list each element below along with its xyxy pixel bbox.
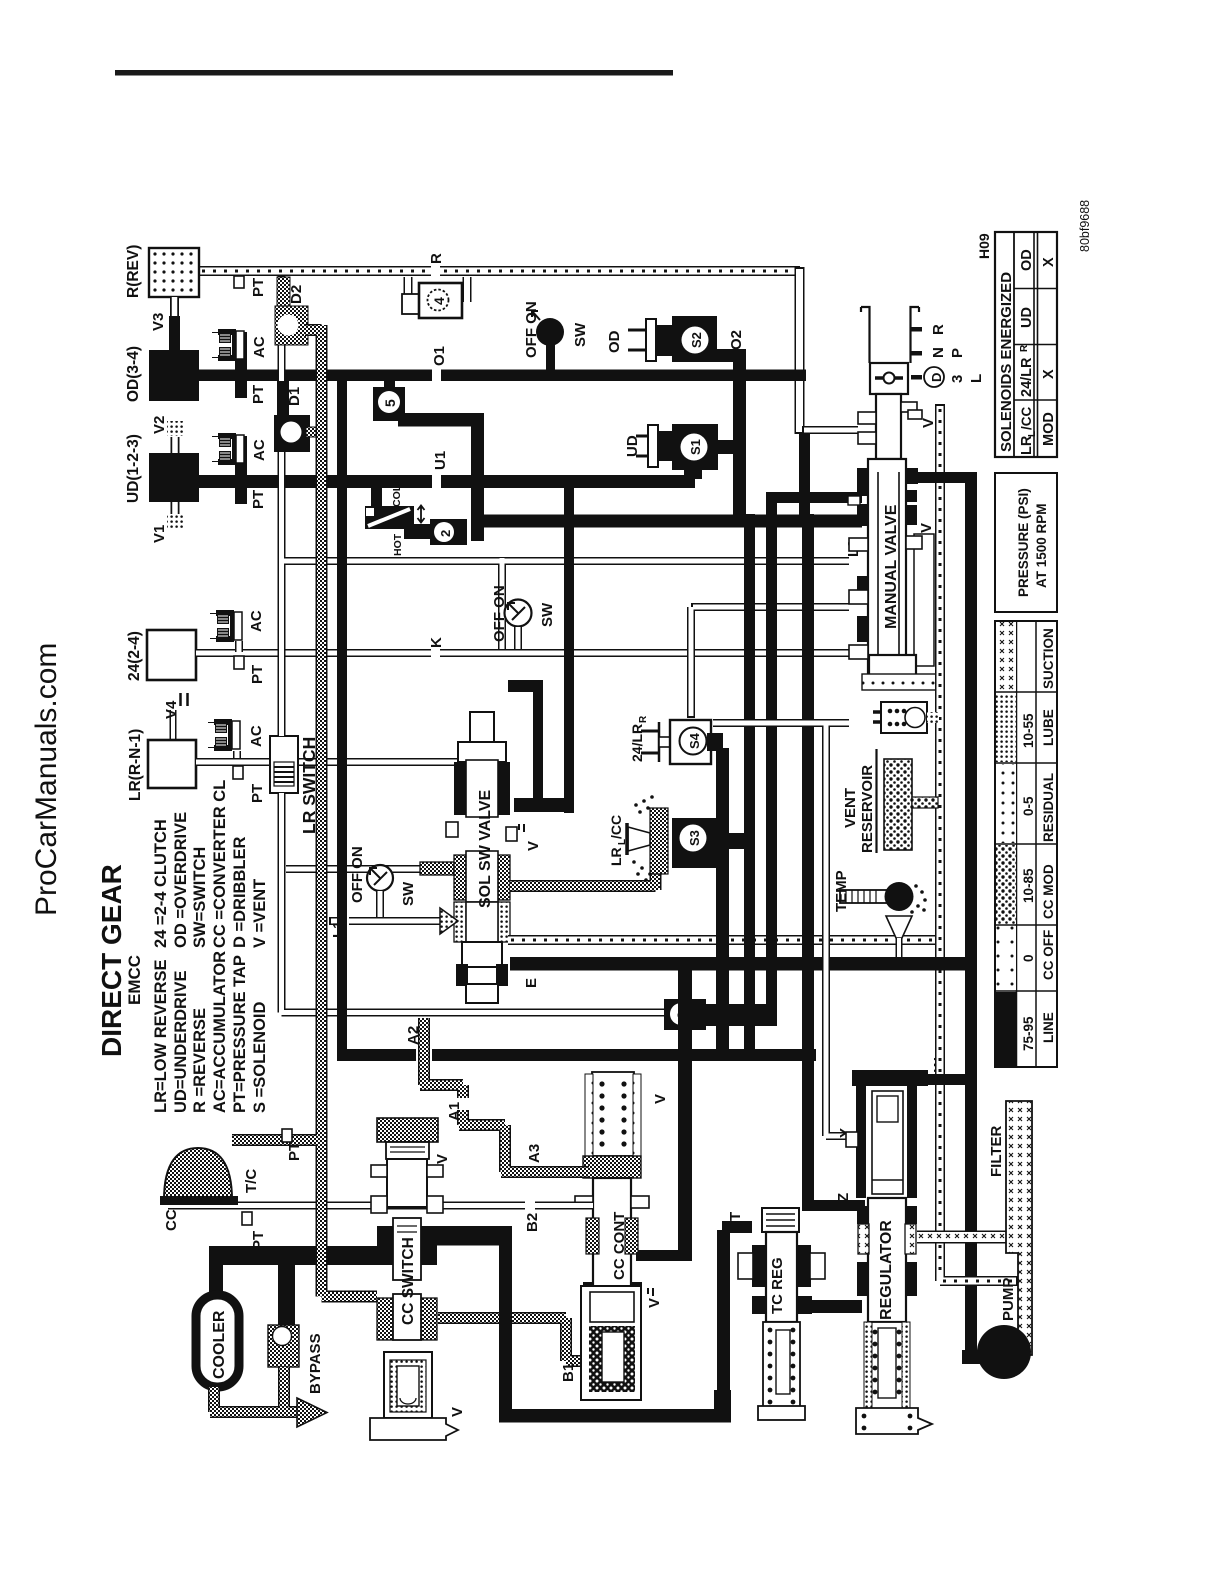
legend abbreviations column 1 <box>152 780 269 948</box>
svg-text:PT: PT <box>249 784 266 803</box>
svg-text:O1: O1 <box>431 346 448 366</box>
svg-text:UD: UD <box>624 435 641 457</box>
wire: vertical UD-to-SOLSW feed <box>508 488 574 813</box>
svg-text:AC: AC <box>251 336 268 358</box>
svg-text:OD(3-4): OD(3-4) <box>125 346 142 402</box>
svg-text:PUMP: PUMP <box>1000 1278 1017 1321</box>
svg-text:R: R <box>930 324 947 335</box>
wire: 2 line to manual valve <box>476 515 862 528</box>
wire: channel from R/3 channel to K line (via 4-ball branch) <box>284 558 849 649</box>
wire: OD clutch line O1 <box>199 370 806 382</box>
switch SW (on K line) <box>491 585 556 649</box>
wire: S4 top channel to manual valve <box>691 607 849 718</box>
wire: T/C out channel to CC CONT (B2) <box>163 1199 593 1250</box>
torque converter T/C dome <box>160 1148 260 1205</box>
svg-text:D1: D1 <box>286 387 303 406</box>
clutch R(REV) dotted box <box>149 248 199 297</box>
vent V1 <box>151 502 183 543</box>
svg-text:S3: S3 <box>687 830 702 846</box>
svg-text:A3: A3 <box>526 1144 543 1163</box>
clutch 24(2-4) box <box>147 630 196 680</box>
node R gap label <box>431 263 440 279</box>
clutch OD(3-4) box <box>149 350 199 401</box>
svg-text:R: R <box>638 715 649 723</box>
wire: channel LR switch to SOL SW valve left port <box>286 862 454 875</box>
svg-text:AC=ACCUMULATOR: AC=ACCUMULATOR <box>211 951 229 1113</box>
svg-text:2: 2 <box>438 530 453 537</box>
svg-text:24 =2-4 CLUTCH: 24 =2-4 CLUTCH <box>152 819 170 948</box>
pressure tap PT on R line <box>234 276 244 288</box>
pressure tap PT on LR line <box>233 766 243 779</box>
solenoid S3 (LRL/CC) with muffler <box>608 795 747 882</box>
svg-text:CC: CC <box>163 1209 180 1231</box>
svg-text:D =DRIBBLER: D =DRIBBLER <box>231 837 249 948</box>
cc mod row <box>996 845 1016 924</box>
suction row swatch <box>996 622 1016 691</box>
residual row <box>996 764 1016 843</box>
svg-text:OFF ON: OFF ON <box>523 301 540 358</box>
wire: long vertical line pressure branch (x342) <box>337 375 347 1055</box>
svg-text:SW: SW <box>400 881 417 906</box>
svg-text:LR: LR <box>608 847 624 866</box>
dribbler D1 <box>274 381 322 452</box>
svg-text:R =REVERSE: R =REVERSE <box>191 1008 209 1113</box>
wire: checker line SOL SW valve to LRL/CC muffler <box>510 812 656 890</box>
check ball 3 <box>664 999 777 1030</box>
solenoid S4 (24/LRR) <box>629 715 723 764</box>
top rule <box>115 70 673 76</box>
svg-text:P: P <box>949 348 966 358</box>
wire: main line pump to manual valve <box>913 472 977 1352</box>
wire: L1 channel to SOL SW valve funnel <box>329 914 444 938</box>
svg-text:SW: SW <box>539 602 556 627</box>
wire: LR clutch channel to LR switch and SOL SW valve <box>196 758 462 766</box>
pressure tap PT on 24 line <box>234 656 244 669</box>
table PRESSURE (PSI) AT 1500 RPM <box>995 473 1057 612</box>
svg-text:0-5: 0-5 <box>1021 796 1036 816</box>
accumulator AC (OD) <box>235 332 247 381</box>
wire: Y channel (manual valve to regulator) <box>713 723 854 1138</box>
switch SW (on L1 line) <box>349 846 417 917</box>
wire: UD clutch line U1 <box>199 475 695 488</box>
svg-text:VENT: VENT <box>842 788 859 828</box>
clutch LR(R-N-1) box <box>148 740 196 788</box>
svg-text:UD=UNDERDRIVE: UD=UNDERDRIVE <box>172 970 190 1113</box>
svg-text:OFF ON: OFF ON <box>349 846 366 903</box>
svg-text:OD =OVERDRIVE: OD =OVERDRIVE <box>172 812 190 948</box>
switch SW (on OD line) <box>523 301 589 371</box>
lube row <box>996 693 1016 762</box>
svg-text:0: 0 <box>1021 954 1036 962</box>
relief ball above vent reservoir <box>873 702 939 733</box>
svg-text:H09: H09 <box>976 233 992 259</box>
svg-text:SW=SWITCH: SW=SWITCH <box>191 847 209 948</box>
svg-text:24/LR: 24/LR <box>1019 357 1035 397</box>
check ball 5 <box>373 378 484 541</box>
svg-text:/CC: /CC <box>1019 407 1034 431</box>
wire: A2 line <box>337 1026 816 1064</box>
dribbler D2 <box>275 277 308 345</box>
svg-text:AC: AC <box>251 439 268 461</box>
svg-text:COOLER: COOLER <box>211 1310 228 1379</box>
svg-text:L: L <box>968 374 985 383</box>
svg-text:10-85: 10-85 <box>1021 868 1036 903</box>
svg-text:U1: U1 <box>432 451 449 470</box>
svg-text:SW: SW <box>572 322 589 347</box>
svg-text:V: V <box>918 523 935 533</box>
svg-text:RESERVOIR: RESERVOIR <box>859 765 876 853</box>
svg-text:HOT: HOT <box>392 533 404 556</box>
svg-text:S2: S2 <box>689 332 704 348</box>
svg-text:A1: A1 <box>446 1102 463 1121</box>
svg-text:RESIDUAL: RESIDUAL <box>1041 773 1056 842</box>
wire: manual valve feeds H1/H2 <box>799 434 810 527</box>
wire: E line <box>510 957 967 971</box>
svg-text:SOL SW VALVE: SOL SW VALVE <box>477 789 494 908</box>
svg-text:75-95: 75-95 <box>1021 1016 1036 1051</box>
LR SWITCH <box>270 736 319 834</box>
svg-text:OD: OD <box>606 330 623 353</box>
wire: checker from CC SWITCH to B1 dashpot <box>438 1318 582 1361</box>
svg-text:V: V <box>920 418 937 428</box>
table pressure legend <box>995 621 1057 1067</box>
valve CC CONT <box>560 1072 669 1400</box>
accumulator AC (LR) <box>233 751 241 762</box>
svg-text:B2: B2 <box>524 1213 541 1232</box>
wire: 3-ball vertical V2 <box>766 493 777 1026</box>
svg-text:Z: Z <box>835 1193 852 1202</box>
cc off row <box>996 926 1016 990</box>
svg-text:CC =CONVERTER CL: CC =CONVERTER CL <box>211 780 229 948</box>
valve TC REG <box>717 1208 862 1420</box>
solenoid S2 (OD) <box>606 316 717 362</box>
regulator top frame <box>846 1070 928 1198</box>
svg-text:V: V <box>652 1094 669 1104</box>
svg-text:LINE: LINE <box>1041 1012 1056 1043</box>
svg-text:O2: O2 <box>728 330 745 350</box>
svg-text:10-55: 10-55 <box>1021 713 1036 748</box>
svg-text:DIRECT GEAR: DIRECT GEAR <box>96 864 127 1057</box>
svg-text:LUBE: LUBE <box>1041 709 1056 746</box>
svg-text:L: L <box>1027 431 1038 437</box>
svg-text:PT: PT <box>249 665 266 684</box>
pressure tap PT on T/C checker line <box>282 1129 292 1142</box>
svg-text:LR: LR <box>1019 435 1035 455</box>
svg-text:AT 1500 RPM: AT 1500 RPM <box>1034 503 1049 588</box>
wire: mid dotted suction channel <box>508 935 941 945</box>
PUMP <box>962 1278 1031 1379</box>
svg-text:N: N <box>930 347 947 358</box>
wire: E-line branch down to TC REG <box>636 970 692 1261</box>
pressure tap PT on OD line <box>235 381 247 398</box>
svg-text:X: X <box>1041 257 1057 267</box>
svg-text:V3: V3 <box>150 313 167 331</box>
wire: cooler return checker with arrow <box>210 1367 327 1427</box>
wire: L2 channel to manual valve <box>845 539 862 557</box>
svg-text:ProCarManuals.com: ProCarManuals.com <box>30 643 63 916</box>
pressure tap PT on UD line <box>235 488 247 504</box>
wire: cooler line <box>209 1246 377 1326</box>
svg-text:B1: B1 <box>560 1363 577 1382</box>
wire: R channel vertical (to manual valve area) <box>800 267 859 434</box>
svg-text:LR=LOW REVERSE: LR=LOW REVERSE <box>152 959 170 1113</box>
svg-text:4: 4 <box>431 297 447 305</box>
wire: black-over-dotted patches <box>928 472 971 1085</box>
svg-text:OD: OD <box>1019 249 1035 271</box>
FILTER <box>988 1101 1032 1355</box>
svg-text:UD(1-2-3): UD(1-2-3) <box>125 434 142 503</box>
svg-text:5: 5 <box>382 399 398 407</box>
wire: O2 line from S2 to manual valve <box>716 330 746 521</box>
table SOLENOIDS ENERGIZED <box>995 232 1057 457</box>
svg-text:PT: PT <box>250 490 267 509</box>
svg-text:CC CONT: CC CONT <box>611 1212 628 1280</box>
valve SOL SW VALVE <box>440 712 542 1003</box>
svg-text:EMCC: EMCC <box>125 955 144 1005</box>
COOLER <box>196 1295 239 1387</box>
wire: W stub <box>928 1057 968 1085</box>
svg-text:PT: PT <box>250 278 267 297</box>
solenoid S1 (UD) <box>624 424 740 479</box>
svg-text:K: K <box>428 637 445 648</box>
valve MANUAL VALVE <box>848 394 937 690</box>
TEMP sensor <box>833 870 927 957</box>
svg-text:/CC: /CC <box>608 815 624 839</box>
line row <box>996 992 1016 1066</box>
svg-text:PRESSURE (PSI): PRESSURE (PSI) <box>1016 488 1031 597</box>
svg-text:REGULATOR: REGULATOR <box>878 1220 895 1320</box>
wire: dribbler checker line (D2 down to T/C and CC SWITCH) <box>232 325 377 1297</box>
svg-text:AC: AC <box>248 610 265 632</box>
svg-text:FILTER: FILTER <box>988 1125 1005 1177</box>
wire: lube line (x-hatch) from regulator <box>917 1231 1030 1244</box>
wire: bottom line B1 loop <box>437 1226 731 1423</box>
svg-text:R: R <box>1019 344 1030 352</box>
svg-text:CC OFF: CC OFF <box>1041 930 1056 980</box>
svg-text:CC SWITCH: CC SWITCH <box>400 1237 417 1325</box>
svg-text:UD: UD <box>1019 307 1035 328</box>
legend abbreviations column 2 <box>152 951 269 1113</box>
svg-text:TEMP: TEMP <box>833 870 850 912</box>
svg-text:V: V <box>449 1407 466 1417</box>
svg-text:COLD: COLD <box>391 477 403 507</box>
svg-text:V: V <box>525 841 542 851</box>
check ball 2 <box>430 519 467 545</box>
svg-text:MOD: MOD <box>1041 412 1057 446</box>
svg-text:3: 3 <box>949 375 966 383</box>
accumulator AC (UD) <box>235 436 247 481</box>
svg-text:TC REG: TC REG <box>769 1257 786 1314</box>
svg-text:S =SOLENOID: S =SOLENOID <box>251 1002 269 1113</box>
svg-text:SUCTION: SUCTION <box>1041 628 1056 689</box>
svg-text:24/LR: 24/LR <box>629 724 645 762</box>
valve CC SWITCH <box>370 1118 466 1440</box>
clutch UD(1-2-3) box <box>149 453 199 502</box>
svg-text:T/C: T/C <box>243 1169 260 1193</box>
svg-text:AC: AC <box>248 725 265 747</box>
gear selector gate PRNDL <box>861 307 985 387</box>
svg-text:D2: D2 <box>288 285 305 304</box>
wire: R/3 thin channel (R line down through LR switch to 3 ball) <box>279 275 666 1013</box>
svg-text:V1: V1 <box>151 525 168 543</box>
wire: A1/A3 checker staircase to CC CONT <box>420 1018 589 1172</box>
svg-text:OFF ON: OFF ON <box>491 585 508 642</box>
svg-text:PT: PT <box>250 385 267 404</box>
svg-text:80bf9688: 80bf9688 <box>1078 200 1092 252</box>
wire: 2-line vertical V1 down to A2 junction <box>744 514 755 1055</box>
vent V3 <box>150 297 180 350</box>
svg-text:V: V <box>434 1154 451 1164</box>
manual valve detent <box>870 363 908 394</box>
svg-text:S1: S1 <box>688 439 703 455</box>
svg-text:V2: V2 <box>151 416 168 434</box>
svg-text:CC MOD: CC MOD <box>1041 864 1056 919</box>
svg-text:X: X <box>1041 369 1057 379</box>
wire: Z line (A2 junction down to regulator) <box>802 514 865 1211</box>
thermal valve HOT/COLD <box>365 477 432 556</box>
wire: suction dotted vertical from manual valve to sump <box>940 404 1018 1281</box>
svg-text:24(2-4): 24(2-4) <box>126 631 143 681</box>
svg-text:R: R <box>428 253 445 264</box>
svg-text:PT=PRESSURE TAP: PT=PRESSURE TAP <box>231 955 249 1113</box>
svg-text:V4: V4 <box>163 700 180 719</box>
svg-text:SOLENOIDS ENERGIZED: SOLENOIDS ENERGIZED <box>998 272 1015 452</box>
svg-text:MANUAL VALVE: MANUAL VALVE <box>883 504 900 629</box>
vent V4 <box>163 693 188 740</box>
svg-text:V: V <box>646 1298 663 1308</box>
BYPASS valve <box>268 1325 324 1394</box>
svg-text:BYPASS: BYPASS <box>307 1333 324 1394</box>
svg-text:PT: PT <box>286 1142 303 1161</box>
VENT RESERVOIR <box>842 749 938 853</box>
valve REGULATOR <box>856 1198 932 1434</box>
vent V2 <box>151 416 183 453</box>
svg-text:D: D <box>929 373 944 382</box>
svg-text:T: T <box>727 1212 744 1221</box>
svg-text:R(REV): R(REV) <box>125 245 142 298</box>
check ball 4 assembly <box>402 277 467 318</box>
wire: S4 output vertical to A2 junction <box>716 748 729 1053</box>
wire: 24 clutch channel K <box>196 649 850 657</box>
svg-text:S4: S4 <box>687 732 702 749</box>
svg-text:LR(R-N-1): LR(R-N-1) <box>127 729 144 801</box>
svg-text:V =VENT: V =VENT <box>251 879 269 948</box>
svg-text:E: E <box>523 978 540 988</box>
accumulator AC (24) <box>235 641 243 652</box>
wire: R(REV) suction dotted line <box>199 266 800 276</box>
